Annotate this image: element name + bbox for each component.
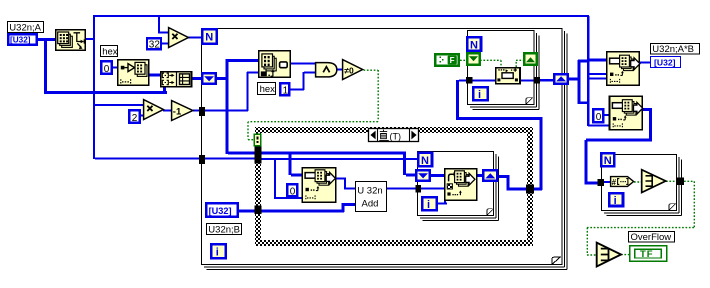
- wire: index array to and gate: [291, 63, 315, 65]
- shift register left (big loop): [202, 73, 216, 84]
- for-loop frame (inner FOR loop 2, center): [418, 152, 499, 221]
- N terminal loop2: [418, 153, 432, 167]
- for-loop frame (small FOR loop 4, top right): [468, 31, 540, 110]
- wire: loop5 tunnel to pill: [604, 181, 610, 183]
- svg-text:F: F: [450, 56, 455, 65]
- wire: shift register out to bus x226: [217, 77, 228, 80]
- label U32n;A*B: [651, 44, 700, 56]
- constant 0 (right): [593, 109, 603, 123]
- wire: branch down to loop2 shift register: [403, 154, 406, 175]
- svg-text:[U32]: [U32]: [10, 36, 31, 45]
- for-loop main frame (big outer FOR loop): [202, 29, 568, 270]
- insert-into-array icon (in case): [302, 168, 336, 202]
- svg-text:i: i: [614, 195, 617, 207]
- wire: stubs into subset icon: [588, 73, 606, 75]
- tunnel: loop5 right (boolean out): [676, 178, 684, 186]
- wire: array A branch down and right to build array: [44, 38, 47, 93]
- svg-text:i: i: [478, 89, 481, 101]
- rotate left with carry icon (loop4): [496, 68, 520, 84]
- wire: or-array 2 to TF indicator: [621, 254, 629, 256]
- svg-text:U32n;B: U32n;B: [208, 225, 240, 236]
- wire: boolean from not-equal-0 to case selector (green dotted): [248, 60, 694, 255]
- [U32] control A: [8, 34, 37, 45]
- svg-text:U 32n: U 32n: [357, 186, 382, 197]
- wire: vertical bus x94: [93, 15, 95, 159]
- i terminal loop5: [609, 193, 623, 206]
- wire: 2 to multiply: [141, 115, 144, 117]
- wire: [U32] A to array icon: [38, 38, 55, 41]
- array-to-matrix icon (top left): [56, 30, 85, 50]
- array subset icon 1 (right, A*B output): [607, 52, 640, 86]
- label hex (top): [101, 46, 118, 58]
- svg-text:≠0: ≠0: [344, 65, 354, 75]
- wire: top array down right side: [587, 16, 590, 126]
- svg-text:N: N: [421, 155, 429, 167]
- svg-text:0: 0: [104, 64, 110, 75]
- label U32n;B: [207, 224, 242, 236]
- svg-text:i: i: [216, 246, 219, 258]
- wire: run left at y118 and up into loop4: [456, 117, 542, 120]
- wire: 1 const to and gate: [290, 89, 304, 91]
- wire: hex 0 to init array: [113, 67, 118, 69]
- tunnel: decrement wire through big loop border: [199, 107, 205, 116]
- i terminal big loop: [211, 244, 226, 258]
- tunnel: case left bottom (array B): [255, 206, 262, 215]
- wire: init array to build array: [149, 74, 160, 77]
- N terminal big loop: [202, 29, 216, 43]
- wire: insert icon out to Add subVI: [336, 178, 346, 180]
- wire: F constant to green shift register: [460, 59, 466, 61]
- wire: [U32] B array to Add subVI: [239, 210, 344, 213]
- not-equal-to-0 comparator: [343, 60, 363, 80]
- wire: 0 to subset icon 2: [604, 114, 609, 116]
- svg-text:U32n;A: U32n;A: [9, 23, 41, 34]
- svg-text:0: 0: [596, 112, 602, 123]
- replace array element icon (loop2): [445, 169, 477, 200]
- array subset icon 2 (right lower): [610, 96, 643, 130]
- tunnel: case left (array + scalar): [255, 146, 262, 164]
- wire: Add out into loop2: [387, 188, 416, 190]
- tunnel: case right output: [526, 185, 534, 194]
- boolean False constant: [435, 54, 459, 66]
- wire: build array to left shift register: [192, 77, 201, 80]
- case structure border (checkered bands): [255, 127, 533, 246]
- wire: n-1 scalar run at y158: [95, 158, 201, 160]
- constant 32: [147, 38, 161, 50]
- svg-text:-1: -1: [173, 106, 182, 117]
- wire: green shift regs to rotate icon: [480, 60, 523, 67]
- svg-text:[U32]: [U32]: [209, 206, 232, 216]
- or array elements node (loop5): [642, 170, 666, 193]
- svg-text:Add: Add: [362, 199, 379, 210]
- tunnel: scalar wire through big loop border: [199, 155, 205, 164]
- wire: decrement out through tunnel: [193, 110, 248, 112]
- wire: loop2 shift reg to replace icon: [431, 174, 444, 177]
- index array icon: [259, 51, 291, 78]
- wire: bus to lower multiply: [95, 104, 143, 106]
- svg-text:N: N: [205, 32, 213, 44]
- N terminal loop5: [601, 153, 614, 167]
- wire: icon2 out loop to FOR loop 5: [642, 108, 652, 111]
- [U32] control B: [206, 203, 238, 217]
- svg-text:[U32]: [U32]: [654, 57, 676, 67]
- constant 2: [129, 110, 140, 124]
- multiply node (top): [169, 28, 189, 48]
- for-loop frame (FOR loop 5, right): [602, 155, 682, 216]
- svg-text:hex: hex: [102, 47, 118, 58]
- constant 0 (hex, top): [101, 61, 112, 75]
- or array elements node 2 (overflow): [597, 243, 621, 267]
- label U32n;A: [8, 22, 44, 34]
- wire: bus to index array: [228, 59, 258, 62]
- i terminal loop2: [422, 197, 436, 211]
- wire: i to replace icon: [438, 203, 447, 205]
- wire: branch down to add chain: [274, 159, 276, 199]
- svg-text:TF: TF: [640, 249, 654, 260]
- svg-text:hex: hex: [260, 84, 276, 95]
- N terminal loop4: [467, 37, 481, 51]
- build array icon: [161, 72, 192, 87]
- svg-text:32: 32: [149, 40, 161, 51]
- wire: 32 to multiply: [162, 43, 168, 45]
- wire: multiply to N: [188, 37, 202, 39]
- constant 0 (case): [287, 184, 297, 197]
- wire: inside loop4: [473, 80, 496, 82]
- case selector tunnel [?]: [254, 134, 260, 145]
- and gate: [316, 63, 337, 77]
- wire: array icon out to vertical bus: [86, 38, 95, 40]
- i terminal loop4: [473, 87, 487, 101]
- TF boolean indicator: [630, 246, 667, 262]
- wire: branch down to multiply: [158, 16, 160, 33]
- wire: loop5 out down to second or-array: [587, 181, 694, 255]
- wire: jog of shift reg branch: [578, 102, 589, 105]
- svg-text:N: N: [470, 39, 478, 51]
- initialize array icon: [118, 60, 149, 86]
- tunnel: loop4 right: [534, 77, 541, 84]
- [U32] indicator A*B: [651, 57, 681, 68]
- shift register right (big loop): [554, 74, 568, 84]
- decrement node: [172, 101, 193, 121]
- wire: array run y152 into case: [228, 152, 406, 155]
- wire: pill to or-array in loop5: [634, 181, 641, 183]
- label OverFlow: [629, 232, 675, 244]
- svg-text:1: 1: [283, 85, 289, 96]
- svg-text:#: #: [612, 178, 617, 187]
- wire: long top run to right side: [93, 15, 589, 17]
- tunnel: loop2 left: [416, 185, 422, 193]
- wire: or-array to loop5 tunnel: [666, 180, 676, 182]
- U 32n Add subVI box: [356, 182, 387, 212]
- constant 1: [280, 83, 289, 96]
- shift register right (loop2): [483, 170, 497, 180]
- multiply node (left middle): [144, 100, 164, 120]
- wire: big loop right shift reg out: [569, 78, 580, 81]
- wire: replace icon to right shift reg: [477, 174, 482, 177]
- wire: subset icon to [U32] indicator: [640, 62, 650, 64]
- svg-text:2: 2: [132, 113, 138, 124]
- boolean-array-to-number pill (loop5): [611, 177, 634, 187]
- tunnel: loop5 left: [598, 179, 605, 186]
- tunnel: loop4 left: [466, 77, 473, 84]
- label hex (case): [258, 83, 276, 96]
- wire: multiply to decrement: [163, 110, 171, 112]
- svg-text:OverFlow: OverFlow: [631, 232, 672, 243]
- svg-text:U32n;A*B: U32n;A*B: [652, 44, 694, 55]
- svg-text:0: 0: [290, 186, 296, 197]
- case selector label bar: [369, 129, 419, 142]
- green shift register left (loop4): [467, 53, 480, 65]
- wire: branch down to insert icon: [289, 154, 292, 175]
- svg-text:(T): (T): [390, 132, 402, 142]
- wire: and to not-equal-0: [337, 69, 342, 71]
- wire: loop2 out, case exit and riser: [499, 175, 509, 178]
- shift register left (loop2): [416, 170, 429, 180]
- svg-text:i: i: [427, 199, 430, 211]
- svg-text:N: N: [604, 155, 612, 167]
- green shift register right (loop4): [524, 53, 537, 65]
